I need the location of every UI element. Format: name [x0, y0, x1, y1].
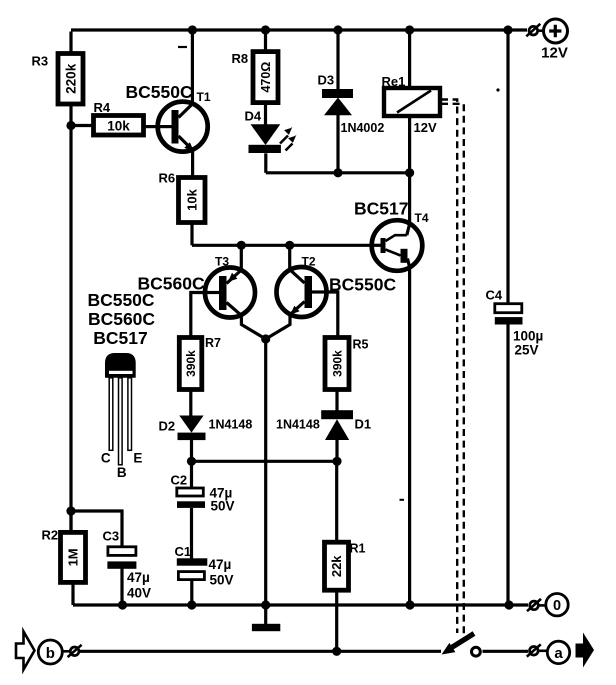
label BC517 for T4	[354, 199, 408, 219]
label C4	[486, 288, 503, 303]
capacitor C2	[177, 488, 205, 508]
node D3 bottom	[333, 168, 342, 177]
ground	[252, 624, 280, 631]
wire D2 to output rail	[190, 440, 193, 461]
wire R7 to D2	[189, 390, 192, 417]
label 1N4002	[341, 121, 385, 135]
node right rail on top rail	[503, 25, 512, 34]
svg-text:100µ: 100µ	[513, 329, 543, 344]
svg-text:R3: R3	[32, 54, 49, 69]
wire 0 connector link	[538, 604, 547, 607]
resistor R4	[94, 116, 144, 136]
svg-text:390k: 390k	[184, 350, 198, 377]
svg-text:Re1: Re1	[382, 74, 406, 89]
wire T2 collector drop	[288, 245, 291, 270]
wire ground stub	[264, 605, 267, 625]
node output rail left	[187, 457, 196, 466]
transistor T4	[372, 220, 423, 271]
wire R4 branch	[71, 124, 94, 127]
terminal b circle	[38, 640, 62, 664]
resistor R2	[61, 532, 86, 582]
wire relay coil bottom	[408, 116, 411, 173]
transistor T3	[205, 268, 255, 318]
label 1N4148 right	[276, 418, 320, 432]
svg-text:47µ: 47µ	[127, 570, 150, 585]
svg-text:0: 0	[553, 598, 561, 614]
node T4 emitter on bottom rail	[405, 600, 414, 609]
node C1 bottom rail	[187, 600, 196, 609]
svg-text:C2: C2	[171, 473, 188, 488]
label C1 value 50V	[210, 573, 234, 588]
package lead C	[109, 378, 113, 451]
label R2	[42, 528, 59, 543]
label R1	[350, 542, 366, 556]
label C2 value 47u	[210, 486, 233, 501]
label R7	[205, 336, 221, 350]
svg-text:47µ: 47µ	[209, 557, 232, 572]
svg-text:E: E	[133, 450, 142, 465]
terminal 0 connector slash	[527, 599, 541, 611]
wire D4 to relay bottom rail	[264, 153, 267, 173]
label package BC560C	[88, 309, 155, 329]
wire relay bottom rail	[266, 171, 410, 174]
wire C1 to bottom rail	[190, 580, 193, 605]
svg-text:1N4002: 1N4002	[341, 121, 385, 135]
node C3 branch on left rail	[66, 506, 75, 515]
svg-text:12V: 12V	[414, 120, 437, 135]
node T3 emitter tap	[237, 241, 246, 250]
transistor package TO-92 body	[105, 353, 136, 378]
wire output rail to C2	[190, 461, 193, 488]
label D2	[159, 419, 176, 434]
label C2	[171, 473, 188, 488]
svg-text:C4: C4	[486, 288, 503, 303]
svg-text:C1: C1	[175, 544, 192, 559]
wire bottom 0V rail	[73, 603, 528, 606]
label T4	[415, 211, 429, 225]
label BC550C for T2	[329, 275, 396, 295]
node left rail / R4 branch	[66, 121, 75, 130]
resistor R3	[58, 54, 83, 105]
wire D3 drop from rail	[336, 30, 339, 90]
label D4	[245, 109, 262, 124]
wire R2 to bottom rail	[71, 582, 74, 605]
wire C3 branch horizontal	[71, 511, 122, 548]
label T1	[197, 90, 211, 104]
label R8	[232, 51, 249, 66]
switch lever	[450, 634, 474, 649]
terminal b input arrow	[16, 632, 35, 670]
capacitor C1	[177, 558, 208, 579]
label relay value 12V	[414, 120, 437, 135]
node relay coil bottom	[405, 168, 414, 177]
node relay on rail	[405, 25, 414, 34]
terminal +12V connector circle	[529, 26, 538, 35]
svg-text:BC517: BC517	[93, 328, 147, 348]
wire right rail upper	[506, 30, 509, 304]
svg-text:R4: R4	[94, 100, 111, 115]
wire R8 to LED D4	[264, 103, 267, 125]
wire comparator base rail	[192, 244, 372, 247]
wire T2 emitter to center node	[266, 315, 290, 340]
label C4 value 100u	[513, 329, 543, 344]
label BC560C for T3	[138, 274, 205, 294]
wire R8 drop from rail	[264, 30, 267, 52]
svg-text:B: B	[117, 465, 127, 480]
wire relay coil top	[408, 30, 411, 89]
svg-text:D3: D3	[318, 73, 335, 88]
resistor R5	[325, 338, 349, 390]
relay Re1	[384, 88, 440, 116]
wire C3 to bottom rail	[120, 569, 123, 605]
wire R4 to T1 base	[144, 125, 159, 128]
wire T1 emitter to R6	[191, 150, 194, 179]
label BC550C for T1	[126, 82, 193, 102]
wire D1 to output rail	[335, 440, 338, 461]
wire T3 base to R7	[191, 293, 205, 338]
svg-text:50V: 50V	[211, 499, 235, 514]
svg-text:BC550C: BC550C	[126, 82, 193, 102]
switch open contact	[472, 647, 481, 656]
node center line on bottom rail	[261, 600, 270, 609]
wire comparator output rail	[192, 460, 338, 463]
svg-text:1M: 1M	[65, 548, 80, 566]
label C3	[103, 529, 120, 544]
terminal a connector slash	[527, 644, 541, 656]
svg-text:R2: R2	[42, 528, 59, 543]
wire T3 collector to center node	[241, 315, 265, 339]
svg-text:D4: D4	[245, 109, 262, 124]
svg-text:220k: 220k	[63, 63, 78, 94]
wire T3 emitter drop	[240, 245, 243, 270]
LED D4	[249, 124, 297, 153]
wire +12V connector link	[537, 29, 544, 32]
wire T4 collector to relay node	[408, 173, 411, 224]
dashed actuator link upper	[441, 100, 457, 634]
svg-text:D2: D2	[159, 419, 176, 434]
diode D3	[322, 89, 353, 115]
capacitor C3	[107, 547, 136, 569]
label T3	[215, 255, 229, 269]
svg-text:R5: R5	[353, 338, 369, 352]
label package pin C	[101, 450, 111, 465]
svg-text:390k: 390k	[331, 350, 345, 377]
svg-text:T4: T4	[415, 211, 429, 225]
package lead B	[119, 378, 123, 465]
svg-text:40V: 40V	[127, 586, 151, 601]
node T2 collector tap	[285, 241, 294, 250]
resistor R8	[253, 52, 278, 103]
label R3	[32, 54, 49, 69]
package lead E	[128, 378, 132, 451]
label package pin E	[133, 450, 142, 465]
svg-text:T3: T3	[215, 255, 229, 269]
wire left rail to R2	[69, 511, 72, 533]
svg-text:1N4148: 1N4148	[276, 418, 320, 432]
svg-text:12V: 12V	[541, 45, 568, 62]
transistor T1	[158, 102, 208, 153]
terminal +12V circle	[544, 19, 568, 43]
resistor R1	[325, 542, 349, 590]
wire C2 to C1	[190, 508, 193, 559]
terminal b connector circle	[70, 647, 79, 656]
svg-text:470Ω: 470Ω	[259, 62, 273, 93]
svg-text:BC550C: BC550C	[87, 290, 154, 310]
label D1	[355, 417, 372, 432]
wire R1 to loop wire	[335, 590, 338, 651]
node R1 on loop wire	[332, 647, 341, 656]
terminal 0 connector circle	[530, 601, 539, 610]
diode D1	[321, 410, 353, 440]
svg-text:C: C	[101, 450, 111, 465]
node R8 on rail	[261, 25, 270, 34]
terminal a output arrow	[576, 633, 595, 668]
label +12V	[541, 45, 568, 62]
wire center node to bottom rail	[264, 339, 267, 605]
wire D1 node to R1	[335, 461, 338, 542]
terminal +12V connector slash	[526, 24, 540, 37]
transistor T2	[277, 267, 328, 317]
svg-text:R8: R8	[232, 51, 249, 66]
svg-text:50V: 50V	[210, 573, 234, 588]
wire top +12V rail	[71, 28, 527, 31]
label package BC550C	[87, 290, 154, 310]
wire right rail lower	[506, 325, 509, 606]
svg-text:T1: T1	[197, 90, 211, 104]
label Re1	[382, 74, 406, 89]
node right rail on bottom rail	[504, 600, 513, 609]
resistor R6	[179, 178, 206, 223]
wire R6 down to base rail	[190, 223, 193, 246]
wire b connector link	[62, 650, 71, 653]
terminal 0 circle	[546, 594, 568, 616]
wire T1 collector to rail	[191, 30, 194, 104]
svg-text:b: b	[46, 645, 55, 662]
wire loop a segment	[483, 650, 529, 653]
svg-text:BC517: BC517	[354, 199, 408, 219]
dashed actuator link lower	[441, 104, 464, 634]
svg-text:C3: C3	[103, 529, 120, 544]
label T2	[302, 255, 316, 269]
svg-text:R7: R7	[205, 336, 221, 350]
terminal b connector slash	[68, 645, 82, 657]
svg-text:T2: T2	[302, 255, 316, 269]
svg-text:22k: 22k	[329, 555, 344, 577]
node center collector junction	[261, 334, 270, 343]
wire loop b segment	[79, 650, 441, 653]
wire a connector link	[538, 649, 548, 652]
label R4	[94, 100, 111, 115]
switch common contact arrow	[442, 643, 456, 655]
svg-text:1N4148: 1N4148	[209, 418, 253, 432]
label 1N4148 left	[209, 418, 253, 432]
wire T4 emitter to bottom rail	[408, 268, 411, 606]
wire left rail middle segment	[69, 104, 72, 533]
label C3 value 40V	[127, 586, 151, 601]
resistor R7	[179, 338, 202, 390]
terminal a connector circle	[530, 647, 539, 656]
capacitor C4	[495, 304, 523, 325]
svg-text:R1: R1	[350, 542, 366, 556]
label package BC517	[93, 328, 147, 348]
label R5	[353, 338, 369, 352]
label C1	[175, 544, 192, 559]
node T1 collector on rail	[188, 25, 197, 34]
label C4 value 25V	[515, 343, 539, 358]
svg-text:a: a	[554, 645, 563, 662]
wire left rail upper segment	[69, 32, 72, 55]
node D3 on rail	[333, 25, 342, 34]
wire R5 to D1	[335, 390, 338, 411]
svg-text:10k: 10k	[185, 188, 200, 210]
node output rail right	[332, 457, 341, 466]
label package pin B	[117, 465, 127, 480]
svg-text:25V: 25V	[515, 343, 539, 358]
wire D3 to relay bottom rail	[336, 115, 339, 173]
label C3 value 47u	[127, 570, 150, 585]
svg-text:R6: R6	[159, 171, 176, 186]
wire T2 base to R5	[327, 292, 338, 338]
svg-text:10k: 10k	[107, 119, 130, 134]
terminal a circle	[547, 641, 569, 663]
label D3	[318, 73, 335, 88]
label R6	[159, 171, 176, 186]
svg-text:BC560C: BC560C	[88, 309, 155, 329]
svg-text:D1: D1	[355, 417, 372, 432]
label C2 value 50V	[211, 499, 235, 514]
diode D2	[178, 416, 206, 441]
label C1 value 47u	[209, 557, 232, 572]
node C3 on bottom rail	[118, 600, 127, 609]
